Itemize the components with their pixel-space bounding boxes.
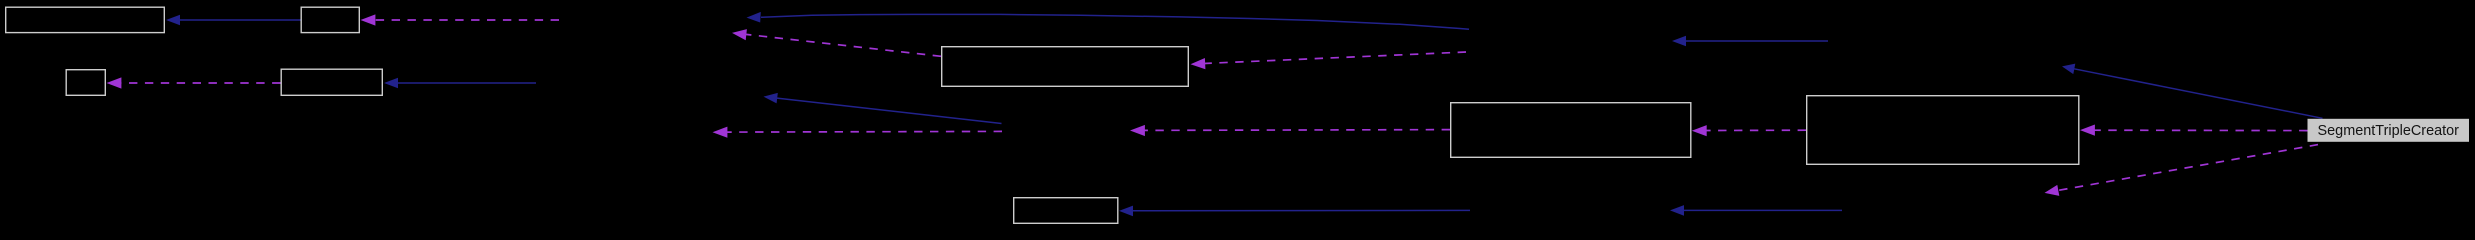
node box B4 [281, 69, 382, 95]
inheritance arrow E5 (into B6) [1119, 206, 1470, 217]
inheritance arrow E8 (from B9 top-left, diagonal up-left) [2062, 64, 2323, 119]
usage arrow M6 (B7 to floating tip at x=1130) [1130, 125, 1450, 136]
node box B3 [66, 70, 105, 96]
current node B9: SegmentTripleCreator (filled label box) [2308, 119, 2470, 142]
usage arrow M5 (floating, middle, truncated at x=1002) [713, 127, 1003, 138]
usage arrow M4 (into B5 right, truncated at x=1466) [1191, 52, 1467, 69]
node box B2 [301, 7, 359, 32]
usage arrow M9 (from B9 bottom-left, diagonal down-left) [2045, 145, 2319, 196]
usage arrow M3 (from B5 left, diagonal up-left) [732, 29, 941, 56]
node box B5 (center) [942, 47, 1189, 87]
usage arrow M8 (B9 to B8) [2080, 125, 2308, 136]
node box B1 (top-left) [6, 7, 165, 32]
node box B7 [1451, 103, 1691, 158]
node box B6 (bottom center) [1014, 198, 1118, 224]
usage arrow M7 (B8 to B7) [1692, 125, 1806, 136]
svg-text:SegmentTripleCreator: SegmentTripleCreator [2318, 123, 2460, 139]
inheritance arrow E4 (diagonal, truncated at x=1001) [764, 93, 1002, 124]
node box B8 [1807, 96, 2079, 165]
inheritance arrow E3 (long curve, truncated at x=1469) [747, 12, 1470, 29]
usage arrow M2 (B4 to B3) [107, 77, 281, 88]
inheritance arrow E7 (floating, top right) [1672, 36, 1828, 47]
inheritance arrow E6 (floating, bottom right) [1670, 205, 1842, 216]
inheritance arrow E2 (into B4, truncated right) [384, 78, 536, 89]
inheritance arrow E1 (B2 to B1) [166, 15, 301, 26]
usage arrow M1 (into B2, truncated right) [361, 14, 560, 25]
